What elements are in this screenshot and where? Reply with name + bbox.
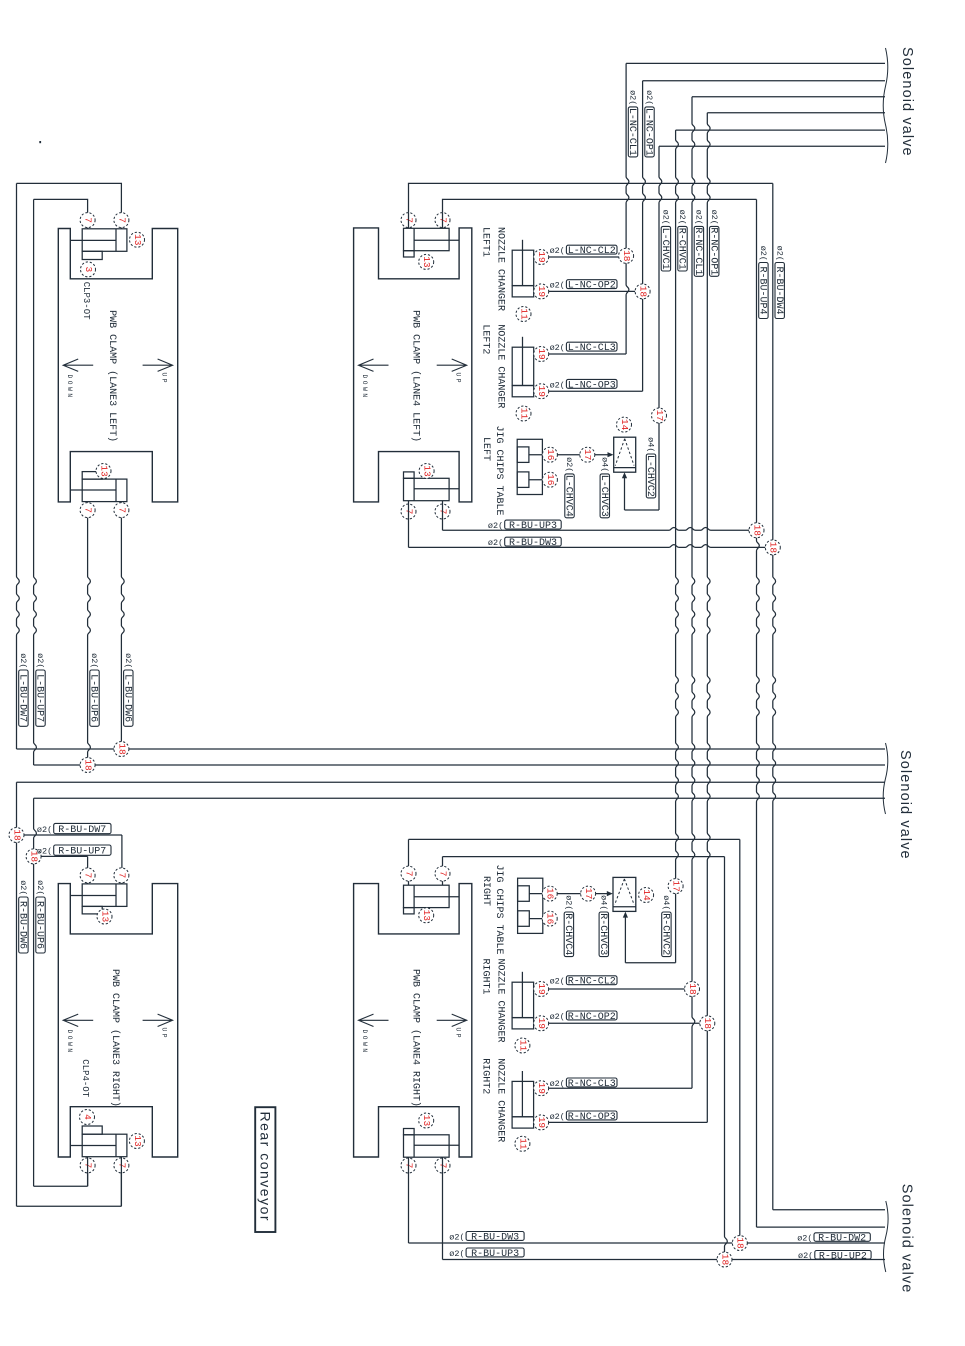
wire L-BU-DW7 drop	[17, 183, 20, 749]
junction 18 R-NC-OP	[700, 1016, 715, 1031]
svg-text:11: 11	[517, 1040, 528, 1052]
junction 17 L-CHVC1	[652, 408, 667, 423]
label Solenoid valve (middle)	[897, 750, 913, 860]
port 7 lane4-right bottom A	[401, 1158, 416, 1173]
svg-text:R-NC-CL1: R-NC-CL1	[692, 227, 703, 275]
label ø2(R-NC-CL3	[550, 1078, 617, 1090]
svg-text:4: 4	[82, 1114, 93, 1120]
svg-text:R-BU-DW2: R-BU-DW2	[818, 1234, 866, 1245]
svg-text:ø2(: ø2(	[797, 1234, 812, 1244]
svg-text:ø2(: ø2(	[550, 380, 565, 390]
label ø2(R-BU-DW3	[449, 1232, 524, 1244]
label ø2(R-BU-UP3	[488, 520, 561, 532]
svg-text:7: 7	[116, 873, 127, 879]
svg-text:ø2(: ø2(	[550, 246, 565, 256]
label CLP4-OT	[80, 1059, 90, 1097]
port 7 lane3-left bottom B	[114, 503, 129, 518]
jig chips table right symbol	[518, 878, 550, 933]
svg-text:PWB CLAMP (LANE3 LEFT): PWB CLAMP (LANE3 LEFT)	[106, 310, 118, 442]
wire middle line4	[34, 797, 885, 799]
svg-text:L-BU-UP6: L-BU-UP6	[88, 674, 99, 722]
label ø4(R-CHVC3	[597, 895, 609, 956]
svg-text:L-BU-DW7: L-BU-DW7	[17, 674, 28, 722]
svg-text:ø2(: ø2(	[18, 653, 28, 668]
svg-text:R-CHVC2: R-CHVC2	[660, 913, 671, 955]
PWB clamp lane4-right body	[354, 884, 472, 1157]
junction 13 lane3-right top	[97, 909, 112, 924]
label ø2(R-BU-UP6	[34, 880, 45, 953]
svg-text:R-BU-UP4: R-BU-UP4	[757, 266, 768, 314]
svg-text:18: 18	[83, 759, 94, 771]
rear conveyor box	[255, 1107, 275, 1232]
arrow DOWN lane3-right	[63, 1014, 93, 1055]
label NOZZLE CHANGER RIGHT1	[480, 959, 506, 1043]
svg-text:18: 18	[116, 743, 127, 755]
svg-text:14: 14	[619, 419, 630, 431]
junction 18 UP6-bus	[80, 758, 95, 773]
svg-text:NOZZLE CHANGER: NOZZLE CHANGER	[495, 1058, 506, 1142]
svg-text:ø2(: ø2(	[449, 1249, 464, 1259]
svg-text:19: 19	[536, 1018, 547, 1030]
arrow DOWN lane3-left	[63, 359, 93, 400]
svg-text:DOWN: DOWN	[361, 1030, 368, 1055]
svg-text:R-NC-OP3: R-NC-OP3	[568, 1112, 616, 1123]
junction 11 right2	[515, 1136, 530, 1151]
svg-text:R-NC-CL3: R-NC-CL3	[568, 1079, 616, 1090]
junction 18 R-BU-UP7	[26, 849, 41, 864]
svg-text:JIG CHIPS TABLE: JIG CHIPS TABLE	[493, 426, 504, 516]
svg-text:R-NC-OP2: R-NC-OP2	[568, 1012, 616, 1023]
junction 18 R-BU-DW7	[9, 828, 24, 843]
svg-text:ø2(: ø2(	[37, 847, 52, 857]
svg-text:Solenoid valve: Solenoid valve	[897, 750, 913, 860]
label ø2(L-NC-OP1	[643, 90, 655, 157]
junction 13 lane4-right top	[419, 908, 434, 923]
svg-text:DOWN: DOWN	[66, 1030, 73, 1055]
svg-text:R-BU-DW4: R-BU-DW4	[773, 266, 784, 314]
label ø2(L-BU-UP7	[34, 653, 45, 726]
junction 11 left1	[516, 307, 531, 322]
wire solenoid top line 4 (R-NC-OP1)	[707, 112, 885, 114]
svg-text:18: 18	[11, 829, 22, 841]
svg-text:18: 18	[768, 542, 779, 554]
junction 17 jig-left	[580, 447, 595, 462]
svg-text:ø2(: ø2(	[758, 246, 768, 261]
svg-text:CLP4-OT: CLP4-OT	[80, 1059, 90, 1097]
label ø2(R-NC-CL2	[550, 976, 617, 988]
label ø2(L-BU-UP6	[88, 653, 100, 726]
svg-text:18: 18	[687, 983, 698, 995]
svg-text:11: 11	[518, 408, 529, 420]
arrow UP lane4-right	[437, 1014, 467, 1040]
wire solenoid top line 1 (L-NC-CL1)	[626, 62, 885, 64]
label ø2(L-NC-CL2	[550, 245, 617, 257]
PWB clamp lane4-left body	[354, 228, 472, 502]
svg-text:7: 7	[83, 873, 94, 879]
svg-text:R-CHVC3: R-CHVC3	[597, 913, 608, 955]
svg-text:19: 19	[536, 385, 547, 397]
port 7 lane4-right top A	[401, 866, 416, 881]
svg-text:LEFT: LEFT	[480, 437, 491, 461]
junction 18 DW6-bus	[114, 742, 129, 757]
svg-text:ø2(: ø2(	[564, 895, 574, 910]
wire solenoid top line 5 (R-CHVC1)	[676, 129, 885, 131]
svg-text:7: 7	[83, 507, 94, 513]
wire jig-right to filter	[557, 891, 613, 896]
wire middle line3	[17, 781, 886, 783]
svg-text:L-NC-CL2: L-NC-CL2	[568, 246, 616, 257]
svg-text:17: 17	[671, 880, 682, 891]
wire lane3-left top port A	[17, 183, 122, 228]
label ø2(R-BU-UP7	[37, 845, 111, 858]
wire L-NC-CL net (V1)	[549, 63, 629, 354]
label ø2(R-BU-DW4	[773, 246, 785, 319]
junction 17 jig-right	[581, 886, 596, 901]
svg-text:18: 18	[719, 1254, 730, 1266]
wire L-BU-UP6 drop	[88, 502, 91, 765]
svg-text:ø2(: ø2(	[18, 880, 28, 895]
svg-text:DOWN: DOWN	[66, 375, 73, 400]
nozzle changer right1 symbol	[512, 972, 534, 1029]
label JIG CHIPS TABLE RIGHT	[480, 865, 504, 955]
wire L-NC-OP2	[549, 290, 635, 292]
wire L-NC-CL2	[549, 256, 619, 258]
label PWB CLAMP (LANE4 LEFT)	[410, 310, 422, 442]
filter R-CHVC2	[613, 877, 636, 911]
label NOZZLE CHANGER RIGHT2	[480, 1058, 506, 1142]
nozzle changer left2 symbol	[512, 337, 534, 397]
svg-text:R-BU-DW3: R-BU-DW3	[509, 538, 557, 549]
arrow UP lane4-left	[437, 359, 467, 385]
svg-text:13: 13	[421, 1115, 432, 1127]
svg-text:ø2(: ø2(	[550, 977, 565, 987]
wire lane3-left top port B	[34, 199, 88, 228]
label JIG CHIPS TABLE LEFT	[480, 426, 504, 516]
svg-text:R-BU-UP2: R-BU-UP2	[819, 1251, 867, 1262]
wire solenoid top line 3 (R-NC-CL1)	[692, 96, 885, 98]
svg-text:13: 13	[132, 234, 143, 246]
svg-text:ø2(: ø2(	[550, 343, 565, 353]
port 19 NC-left1 open	[534, 284, 549, 299]
svg-text:3: 3	[83, 267, 94, 273]
svg-text:14: 14	[641, 889, 652, 901]
label ø2(R-BU-DW2	[797, 1233, 870, 1245]
label ø2(L-CHVC1	[659, 210, 671, 271]
junction 18 R-NC-CL	[685, 982, 700, 997]
svg-text:17: 17	[583, 888, 594, 899]
wire R-BU-UP3	[443, 501, 750, 531]
label ø2(R-CHVC4	[562, 895, 574, 956]
wire jig-left to filter	[557, 452, 613, 457]
port 7 lane4-left top B	[435, 213, 450, 228]
port 16 jig-left B	[542, 472, 557, 487]
label ø2(L-BU-DW7	[17, 653, 29, 726]
svg-text:NOZZLE CHANGER: NOZZLE CHANGER	[495, 227, 506, 311]
break line bottom	[883, 1201, 888, 1272]
svg-text:R-BU-DW7: R-BU-DW7	[58, 825, 106, 836]
svg-text:Solenoid valve: Solenoid valve	[899, 47, 915, 157]
label ø2(R-BU-DW3	[488, 537, 561, 549]
wire R-NC-OP2	[549, 1022, 700, 1024]
label ø2(R-BU-DW7	[37, 823, 111, 836]
label ø2(L-NC-CL1	[626, 90, 638, 157]
cylinder lane4-left bottom	[404, 472, 460, 501]
svg-text:13: 13	[99, 911, 110, 923]
port 7 lane3-right bottom A	[80, 1158, 95, 1173]
port 7 lane3-right bottom B	[114, 1158, 129, 1173]
arrow DOWN lane4-left	[359, 359, 389, 400]
junction 18 bottom UP2	[717, 1252, 732, 1267]
wire lane4-left top port stubs	[409, 213, 443, 229]
svg-text:PWB CLAMP (LANE3 RIGHT): PWB CLAMP (LANE3 RIGHT)	[109, 969, 121, 1107]
svg-text:19: 19	[536, 983, 547, 995]
port 19 NC-right1 close	[534, 982, 549, 997]
port 19 NC-right1 open	[534, 1016, 549, 1031]
break line middle	[883, 743, 888, 814]
svg-text:R-BU-UP3: R-BU-UP3	[471, 1249, 519, 1260]
svg-text:ø2(: ø2(	[709, 210, 719, 225]
svg-text:18: 18	[621, 250, 632, 262]
wire bus L-BU-DW (middle line1)	[17, 748, 886, 750]
svg-text:11: 11	[518, 308, 529, 320]
svg-text:Solenoid valve: Solenoid valve	[898, 1184, 914, 1294]
svg-text:11: 11	[517, 1138, 528, 1150]
svg-text:ø2(: ø2(	[644, 90, 654, 105]
cylinder lane3-right top	[70, 884, 127, 914]
svg-text:17: 17	[654, 410, 665, 421]
svg-text:L-CHVC2: L-CHVC2	[644, 455, 655, 497]
svg-text:ø2(: ø2(	[37, 825, 52, 835]
svg-text:UP: UP	[454, 373, 461, 386]
svg-text:13: 13	[421, 910, 432, 922]
svg-text:LEFT2: LEFT2	[480, 324, 491, 354]
port 7 lane3-left top A	[80, 213, 95, 228]
svg-text:RIGHT1: RIGHT1	[480, 959, 491, 995]
svg-text:RIGHT2: RIGHT2	[480, 1058, 491, 1094]
junction 3 lane3-left	[81, 262, 96, 277]
svg-text:ø2(: ø2(	[694, 210, 704, 225]
svg-text:ø2(: ø2(	[550, 1079, 565, 1089]
PWB clamp lane3-left body	[58, 229, 177, 502]
port 19 NC-left2 close	[534, 347, 549, 362]
svg-text:ø2(: ø2(	[123, 653, 133, 668]
wire lane4-right top riser A	[409, 839, 740, 1243]
junction 13 lane4-right bottom	[419, 1113, 434, 1128]
svg-text:ø2(: ø2(	[35, 880, 45, 895]
junction 18 bottom DW2	[732, 1236, 747, 1251]
wire R-NC-CL net (V3)	[549, 97, 695, 1088]
svg-text:18: 18	[638, 286, 649, 298]
svg-text:7: 7	[403, 871, 414, 877]
svg-text:ø2(: ø2(	[488, 521, 503, 531]
port 16 jig-right B	[542, 911, 557, 926]
arrow UP lane3-right	[143, 1014, 173, 1040]
label ø4(R-CHVC2	[660, 895, 672, 956]
wire solenoid top line 6 (L-CHVC1)	[659, 145, 885, 147]
label PWB CLAMP (LANE3 LEFT)	[106, 310, 118, 442]
svg-text:L-NC-OP3: L-NC-OP3	[568, 380, 616, 391]
svg-text:L-NC-CL3: L-NC-CL3	[568, 343, 616, 354]
svg-text:NOZZLE CHANGER: NOZZLE CHANGER	[495, 959, 506, 1043]
svg-text:ø2(: ø2(	[661, 210, 671, 225]
svg-text:19: 19	[536, 1117, 547, 1129]
cylinder lane3-right bottom	[70, 1126, 127, 1157]
svg-text:L-NC-OP1: L-NC-OP1	[643, 108, 654, 156]
port 19 NC-right2 open	[534, 1115, 549, 1130]
wire R-NC-CL2	[549, 988, 685, 990]
svg-text:R-BU-UP7: R-BU-UP7	[58, 847, 106, 858]
svg-text:R-NC-CL2: R-NC-CL2	[568, 977, 616, 988]
svg-text:18: 18	[702, 1018, 713, 1030]
svg-text:R-CHVC1: R-CHVC1	[676, 228, 687, 270]
junction 18 UP3-UP4	[749, 523, 764, 538]
junction 11 left2	[516, 406, 531, 421]
port 7 lane4-left top A	[401, 213, 416, 228]
svg-text:UP: UP	[454, 1028, 461, 1041]
label NOZZLE CHANGER LEFT1	[480, 227, 506, 311]
junction 4 lane3-right	[80, 1110, 95, 1125]
svg-text:19: 19	[536, 251, 547, 263]
svg-text:ø2(: ø2(	[449, 1232, 464, 1242]
svg-text:ø2(: ø2(	[550, 1112, 565, 1122]
label ø4(L-CHVC3	[598, 457, 610, 518]
svg-text:ø2(: ø2(	[488, 538, 503, 548]
svg-text:ø2(: ø2(	[677, 210, 687, 225]
svg-text:16: 16	[545, 474, 556, 486]
break line top	[883, 48, 888, 163]
svg-text:7: 7	[437, 871, 448, 877]
svg-text:R-BU-UP6: R-BU-UP6	[34, 901, 45, 949]
svg-text:16: 16	[545, 449, 556, 461]
svg-text:19: 19	[536, 286, 547, 298]
nozzle changer left1 symbol	[512, 240, 534, 297]
svg-text:L-BU-UP7: L-BU-UP7	[34, 674, 45, 722]
label ø2(R-NC-OP3	[550, 1111, 617, 1123]
label ø2(L-NC-CL3	[550, 342, 617, 354]
label ø2(L-NC-OP2	[550, 280, 617, 292]
port 7 lane3-right top B	[114, 868, 129, 883]
svg-text:L-NC-CL1: L-NC-CL1	[626, 108, 637, 156]
svg-text:R-BU-UP3: R-BU-UP3	[509, 521, 557, 532]
port 16 jig-right A	[542, 886, 557, 901]
svg-text:19: 19	[536, 1082, 547, 1094]
svg-text:ø2(: ø2(	[89, 653, 99, 668]
svg-text:R-BU-DW3: R-BU-DW3	[471, 1233, 519, 1244]
arrow DOWN lane4-right	[359, 1014, 389, 1055]
wire L-BU-UP7 drop	[34, 199, 37, 765]
svg-text:JIG CHIPS TABLE: JIG CHIPS TABLE	[493, 865, 504, 955]
label PWB CLAMP (LANE3 RIGHT)	[109, 969, 121, 1107]
PWB clamp lane3-right body	[58, 884, 177, 1157]
label NOZZLE CHANGER LEFT2	[480, 324, 506, 408]
wire L-NC-OP net (V2)	[549, 81, 646, 391]
svg-text:13: 13	[421, 256, 432, 268]
wire L-CHVC1 net (V6)	[622, 146, 662, 510]
svg-text:ø4(: ø4(	[646, 437, 656, 452]
junction 13 lane4-left bottom	[419, 464, 434, 479]
port 7 lane3-left top B	[114, 213, 129, 228]
svg-text:L-BU-DW6: L-BU-DW6	[122, 674, 133, 722]
wire R-BU-DW3 bottom	[409, 1157, 886, 1243]
label Solenoid valve (top)	[899, 47, 915, 157]
cylinder lane4-left top	[404, 228, 460, 257]
port 7 lane4-right top B	[435, 866, 450, 881]
svg-text:UP: UP	[160, 1028, 167, 1041]
svg-text:NOZZLE CHANGER: NOZZLE CHANGER	[495, 324, 506, 408]
svg-text:ø4(: ø4(	[599, 457, 609, 472]
wire lane3-right bottom ports	[88, 1157, 122, 1207]
svg-text:7: 7	[116, 217, 127, 223]
svg-text:Rear conveyor: Rear conveyor	[258, 1112, 274, 1223]
wire R-BU-UP7 net	[34, 798, 88, 1186]
label ø4(L-CHVC2	[644, 437, 656, 498]
junction 18 L-NC-OP	[635, 284, 650, 299]
nozzle changer right2 symbol	[512, 1071, 534, 1128]
svg-text:ø4(: ø4(	[661, 895, 671, 910]
cylinder lane3-left bottom	[70, 472, 127, 502]
svg-text:13: 13	[132, 1135, 143, 1147]
label CLP3-OT	[81, 282, 91, 320]
wire R-BU-DW3	[409, 501, 766, 548]
arrow UP lane3-left	[143, 359, 173, 385]
svg-text:16: 16	[545, 913, 556, 925]
label ø2(R-BU-DW6	[17, 880, 29, 953]
label ø2(R-NC-OP1	[707, 210, 719, 277]
svg-text:L-CHVC3: L-CHVC3	[598, 475, 609, 517]
junction 11 right1	[515, 1038, 530, 1053]
cylinder lane4-right top	[404, 885, 460, 914]
label ø2(L-NC-OP3	[550, 379, 617, 391]
jig chips table left symbol	[517, 439, 549, 494]
port 19 NC-left1 close	[534, 250, 549, 265]
junction 13 lane4-left top	[419, 254, 434, 269]
svg-text:L-CHVC4: L-CHVC4	[563, 475, 574, 517]
svg-text:18: 18	[735, 1237, 746, 1249]
svg-text:ø2(: ø2(	[550, 281, 565, 291]
label ø2(L-CHVC4	[563, 457, 575, 518]
svg-text:ø2(: ø2(	[564, 457, 574, 472]
cylinder lane3-left top	[70, 229, 127, 260]
svg-text:DOWN: DOWN	[361, 375, 368, 400]
port 19 NC-left2 open	[534, 384, 549, 399]
port 16 jig-left A	[542, 447, 557, 462]
svg-text:CLP3-OT: CLP3-OT	[81, 282, 91, 320]
svg-text:17: 17	[582, 449, 593, 460]
port 7 lane4-right bottom B	[435, 1158, 450, 1173]
junction 13 lane3-left bottom	[96, 464, 111, 479]
svg-text:L-NC-OP2: L-NC-OP2	[568, 281, 616, 292]
junction 14 left	[617, 417, 632, 432]
wire R-CHVC1 net (V5)	[623, 130, 679, 963]
svg-text:7: 7	[116, 507, 127, 513]
junction 13 lane3-left top	[130, 232, 145, 247]
port 7 lane3-left bottom A	[80, 503, 95, 518]
label Solenoid valve (bottom)	[898, 1184, 914, 1294]
svg-text:LEFT1: LEFT1	[480, 227, 491, 257]
svg-text:R-CHVC4: R-CHVC4	[562, 913, 573, 955]
wire bus L-BU-UP (middle line2)	[34, 764, 885, 766]
port 19 NC-right2 close	[534, 1081, 549, 1096]
svg-text:PWB CLAMP (LANE4 RIGHT): PWB CLAMP (LANE4 RIGHT)	[410, 969, 422, 1107]
label ø2(R-BU-UP4	[757, 246, 769, 319]
filter L-CHVC2	[614, 437, 636, 472]
wire L-BU-DW6 drop	[121, 502, 124, 749]
stray mark	[39, 141, 41, 143]
cylinder lane4-right bottom	[404, 1129, 460, 1158]
svg-text:UP: UP	[160, 373, 167, 386]
svg-text:PWB CLAMP (LANE4 LEFT): PWB CLAMP (LANE4 LEFT)	[410, 310, 422, 442]
svg-text:16: 16	[545, 888, 556, 900]
